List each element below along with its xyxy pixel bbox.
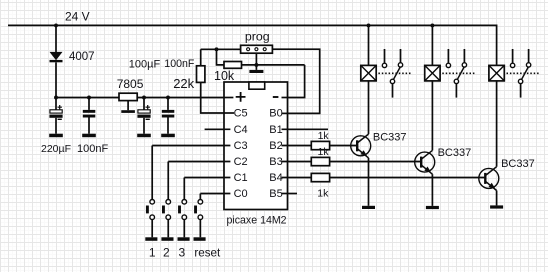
wire K1 to Q1 collector	[368, 81, 370, 134]
wire junction to 10k left	[217, 49, 225, 65]
ground C4	[161, 134, 175, 138]
svg-text:220µF: 220µF	[41, 143, 71, 155]
resistor R4 1k	[311, 157, 329, 165]
wire minus pin inside	[282, 97, 289, 99]
wire B3 tick	[282, 161, 312, 163]
svg-text:BC337: BC337	[373, 131, 407, 143]
node rail-C1cap junction	[54, 96, 58, 100]
connector J1 prog	[241, 45, 273, 53]
relay K3 coil	[489, 65, 504, 81]
wire ground return to IC minus pin	[282, 65, 305, 98]
wire K3 to Q3 collector	[496, 81, 498, 167]
pin minus symbol	[273, 96, 279, 98]
wire Q1 emitter	[368, 158, 370, 206]
relay K1 contact	[378, 49, 410, 98]
regulator U2 7805	[119, 93, 137, 100]
svg-text:B5: B5	[269, 188, 282, 200]
svg-text:2: 2	[163, 245, 170, 259]
ground Q2	[426, 206, 439, 209]
node rail-C2cap junction	[87, 96, 91, 100]
node rail-C3cap junction	[142, 96, 146, 100]
switch S2	[162, 162, 171, 238]
svg-text:B1: B1	[269, 124, 282, 136]
svg-text:100nF: 100nF	[164, 58, 195, 70]
ground C1	[49, 134, 63, 138]
switch S1	[146, 146, 155, 238]
ground S1	[145, 237, 157, 241]
wire serial-in node	[201, 48, 241, 50]
ground prog	[249, 70, 263, 73]
ground C3	[137, 134, 151, 138]
wire K2 to Q2 collector	[431, 81, 433, 150]
wire B5 stub	[282, 193, 298, 195]
ground S2	[161, 237, 173, 241]
wire C1 to switch3	[184, 177, 230, 179]
wire C0 to switch4	[200, 193, 230, 195]
svg-text:1k: 1k	[318, 146, 330, 158]
diode D1 1N4007	[50, 52, 63, 62]
capacitor C3 100uF	[137, 98, 150, 134]
wire 22k bottom to C5 pin	[201, 82, 234, 113]
svg-text:B2: B2	[269, 140, 282, 152]
node ground net junction	[254, 63, 258, 67]
switch S4 reset	[194, 194, 203, 238]
svg-text:C4: C4	[234, 124, 248, 136]
ground Q3	[490, 205, 503, 208]
wire 24V bus	[8, 25, 497, 64]
node bus-relay2 junction	[430, 23, 434, 27]
node serial-in junction	[215, 47, 219, 51]
svg-text:picaxe 14M2: picaxe 14M2	[227, 215, 287, 227]
resistor R1 22k	[197, 49, 205, 82]
svg-text:C5: C5	[234, 108, 248, 120]
wire Q3 emitter	[496, 191, 498, 206]
wire plus pin inside	[224, 97, 234, 99]
svg-text:BC337: BC337	[501, 158, 535, 170]
node bus-diode junction	[54, 23, 58, 27]
wire C5 pin inside	[224, 112, 235, 114]
wire ground net	[242, 64, 305, 66]
ground Q1	[362, 206, 375, 209]
svg-text:prog: prog	[245, 29, 270, 43]
wire B1 stub	[282, 128, 329, 130]
svg-text:B3: B3	[269, 156, 282, 168]
ground S4	[194, 237, 206, 241]
wire prog pin3 to B0	[272, 49, 319, 113]
op-amp U1 picaxe 14M2 body	[224, 82, 288, 210]
wire diode anode	[55, 25, 57, 52]
resistor R5 1k	[311, 173, 329, 181]
pin plus symbol	[236, 92, 246, 102]
relay K1 coil	[361, 25, 376, 81]
svg-text:BC337: BC337	[438, 147, 472, 159]
wire +5V rail into IC plus pin	[56, 97, 233, 99]
wire R3 to Q1 base	[330, 145, 356, 147]
ground 7805	[121, 110, 135, 113]
wire Q2 emitter	[431, 174, 433, 206]
wire C2 to switch2	[168, 161, 230, 163]
relay K2 contact	[442, 49, 474, 98]
svg-text:7805: 7805	[117, 77, 144, 91]
svg-text:1: 1	[149, 245, 156, 259]
wire C4 stub	[205, 128, 231, 130]
svg-text:22k: 22k	[173, 76, 194, 91]
svg-text:3: 3	[179, 245, 186, 259]
wire C3 to switch1	[152, 145, 230, 147]
svg-text:C1: C1	[234, 172, 248, 184]
svg-text:10k: 10k	[214, 69, 235, 83]
wire R4 to Q2 base	[330, 161, 421, 163]
svg-text:C0: C0	[234, 188, 248, 200]
wire B0 pin inside	[282, 112, 289, 114]
node rail-C4cap junction	[166, 96, 170, 100]
svg-text:4007: 4007	[69, 51, 95, 63]
transistor Q1 BC337	[351, 134, 371, 158]
svg-text:B4: B4	[269, 172, 282, 184]
node bus-relay1 junction	[367, 23, 371, 27]
wire B2 tick	[282, 145, 312, 147]
svg-text:24 V: 24 V	[65, 9, 90, 23]
svg-text:1k: 1k	[318, 130, 330, 142]
svg-text:1k: 1k	[317, 187, 329, 199]
capacitor C4 100nF	[162, 98, 175, 134]
ground C2	[82, 134, 96, 138]
wire B4 tick	[282, 177, 312, 179]
wire 7805 ground pin	[127, 101, 129, 111]
capacitor C1 220uF	[49, 98, 62, 134]
wire R5 to Q3 base	[330, 177, 485, 179]
svg-text:B0: B0	[269, 108, 282, 120]
transistor Q2 BC337	[415, 150, 435, 174]
ground S3	[178, 237, 190, 241]
wire prog pin2 drop	[255, 53, 257, 70]
svg-text:100nF: 100nF	[77, 143, 108, 155]
resistor R3 1k	[311, 141, 329, 149]
relay K3 contact	[507, 49, 539, 98]
relay K2 coil	[425, 25, 440, 81]
transistor Q3 BC337	[479, 167, 499, 191]
switch S3	[178, 178, 187, 238]
svg-text:C2: C2	[234, 156, 248, 168]
wire diode cathode to rail	[55, 62, 57, 97]
capacitor C2 100nF	[83, 98, 96, 134]
resistor R2 10k	[224, 62, 242, 69]
svg-text:100µF: 100µF	[129, 58, 161, 70]
svg-text:reset: reset	[194, 246, 221, 259]
svg-text:C3: C3	[234, 140, 248, 152]
